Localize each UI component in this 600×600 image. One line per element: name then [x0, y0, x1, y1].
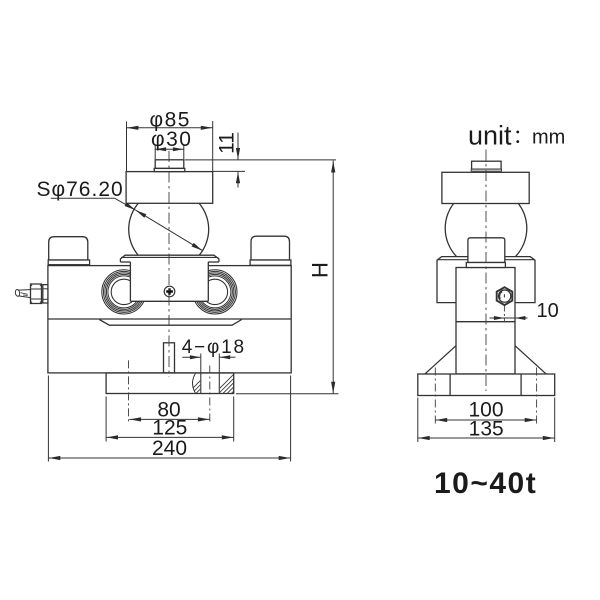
- foot hole centerlines: [128, 360, 130, 423]
- dim S phi76.20: [37, 178, 203, 250]
- front view vertical centerline: [168, 151, 170, 377]
- dim phi85: [127, 109, 213, 172]
- right bellows rings: [193, 270, 237, 314]
- cable gland: [15, 284, 48, 304]
- load cell main body: [48, 266, 291, 373]
- dim H: [236, 161, 339, 394]
- svg-text:：: ：: [513, 127, 532, 148]
- bolt centerline: [503, 306, 505, 323]
- pedestal column: [130, 262, 208, 302]
- side view vertical centerline: [485, 150, 487, 392]
- base plate: [418, 374, 555, 396]
- slot cutout at body bottom: [164, 343, 175, 373]
- svg-text:11: 11: [216, 132, 239, 154]
- top cap: [155, 160, 184, 169]
- side top cap: [472, 161, 502, 169]
- svg-text:240: 240: [152, 437, 187, 460]
- svg-text:10~40t: 10~40t: [434, 467, 537, 500]
- left body cap: [48, 237, 89, 265]
- dim 4-phi18: [182, 337, 246, 373]
- svg-text:Sφ76.20: Sφ76.20: [37, 178, 124, 201]
- svg-text:mm: mm: [532, 127, 565, 149]
- dim 125: [106, 397, 234, 442]
- side flange plate: [437, 257, 535, 303]
- dim 135: [418, 398, 555, 443]
- dim 240: [48, 376, 290, 462]
- svg-text:H: H: [308, 262, 333, 278]
- dim phi30: [151, 128, 192, 159]
- dim 100: [435, 399, 536, 423]
- dim 80: [129, 399, 210, 422]
- left bellows rings: [102, 270, 146, 314]
- left gusset: [425, 346, 456, 374]
- body parting line: [48, 318, 291, 320]
- top loading block: [126, 172, 213, 204]
- center screw: [164, 286, 175, 297]
- side main column: [456, 268, 515, 375]
- svg-text:135: 135: [469, 418, 504, 441]
- side cap lip: [471, 169, 501, 171]
- svg-text:4−φ18: 4−φ18: [182, 337, 246, 358]
- hex bolt: [497, 287, 513, 305]
- foot plate: [106, 373, 234, 394]
- load ball: [129, 189, 209, 269]
- body chamfer groove: [99, 320, 241, 326]
- svg-text:unit: unit: [468, 121, 512, 151]
- side ball: [445, 188, 527, 270]
- dim 10: [490, 300, 559, 322]
- svg-text:10: 10: [537, 300, 559, 322]
- dim 11: [185, 132, 336, 187]
- upper flange plate: [120, 255, 218, 262]
- top cap lip: [154, 168, 185, 171]
- side neck: [468, 238, 505, 263]
- svg-text:φ30: φ30: [151, 128, 192, 151]
- side neck lip: [466, 263, 505, 268]
- base hole centerlines: [434, 368, 436, 425]
- side top block: [442, 172, 529, 203]
- hole section hatch: [184, 373, 264, 397]
- right gusset: [515, 346, 546, 374]
- right body cap: [250, 236, 291, 265]
